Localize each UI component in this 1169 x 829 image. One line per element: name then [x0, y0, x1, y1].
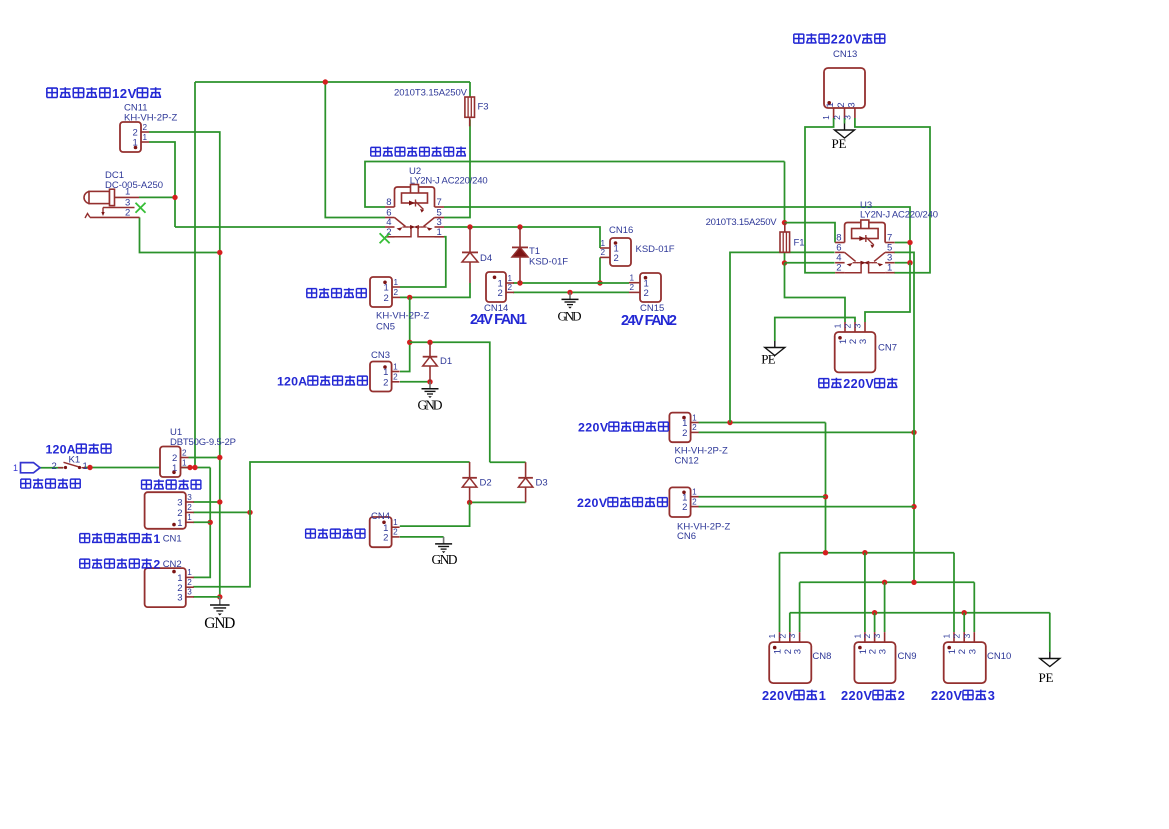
- junction L row CN9 tap: [862, 550, 867, 555]
- svg-text:2: 2: [394, 288, 399, 297]
- svg-text:2: 2: [644, 288, 649, 299]
- svg-text:KSD-01F: KSD-01F: [636, 244, 675, 255]
- svg-text:F1: F1: [794, 238, 805, 249]
- connector CN1: [145, 492, 194, 529]
- svg-text:1: 1: [819, 688, 826, 703]
- wire U2 coil loop to F1: [365, 162, 785, 208]
- wire CN6 pin2: [699, 506, 915, 508]
- svg-text:2: 2: [384, 293, 389, 304]
- svg-text:2: 2: [153, 558, 160, 572]
- svg-text:3: 3: [177, 593, 182, 604]
- junction CN16-FAN node: [597, 280, 602, 285]
- wire CN7 pin2 to PE: [775, 318, 855, 342]
- svg-text:1: 1: [437, 227, 442, 238]
- svg-text:T1: T1: [529, 246, 540, 257]
- svg-text:2: 2: [393, 528, 398, 537]
- junction F1 bottom: [782, 260, 787, 265]
- svg-text:1: 1: [821, 115, 831, 120]
- svg-text:2010T3.15A250V: 2010T3.15A250V: [706, 217, 778, 228]
- svg-text:2: 2: [692, 497, 697, 506]
- fuse F1: [780, 223, 790, 253]
- junction CN1 pin2 node: [247, 510, 252, 515]
- svg-text:CN6: CN6: [677, 531, 696, 542]
- svg-text:2: 2: [393, 373, 398, 382]
- wire DC1 pin2 to GND bus: [140, 217, 220, 252]
- pin numbers U3 row0: [836, 233, 892, 244]
- junction L row CN12 riser: [823, 550, 828, 555]
- svg-text:8: 8: [386, 197, 391, 208]
- svg-text:1: 1: [177, 518, 182, 529]
- svg-text:220V: 220V: [577, 496, 608, 510]
- svg-text:3: 3: [842, 115, 852, 120]
- svg-text:D2: D2: [480, 478, 492, 489]
- wire output PE row: [790, 612, 1050, 614]
- wire CN1 pin2 to charge bus: [193, 511, 250, 513]
- svg-text:2: 2: [692, 423, 697, 432]
- svg-text:LY2N-J AC220/240: LY2N-J AC220/240: [410, 176, 488, 187]
- wire N to CN10 pin3: [973, 582, 975, 632]
- ground GND battery: [219, 597, 221, 605]
- svg-text:3: 3: [988, 688, 995, 703]
- junction U1 pin1 node a: [187, 465, 192, 470]
- junction F1 top: [782, 220, 787, 225]
- svg-text:3: 3: [872, 633, 882, 638]
- wire CN12 pin1 to L riser: [699, 422, 826, 424]
- svg-text:CN5: CN5: [376, 322, 395, 333]
- wire charge bus x250: [193, 462, 469, 587]
- svg-text:1: 1: [182, 458, 187, 467]
- wire PE to CN10 pin2: [963, 613, 965, 632]
- svg-text:KSD-01F: KSD-01F: [529, 257, 568, 268]
- svg-text:120A: 120A: [277, 375, 307, 389]
- wire U3 pin6 L line: [730, 252, 835, 422]
- wire D3 top link: [490, 461, 526, 463]
- junction CN1 pin1 node: [208, 520, 213, 525]
- label 锂电池快充口1: [80, 534, 90, 543]
- svg-text:3: 3: [787, 633, 797, 638]
- svg-text:2: 2: [898, 688, 905, 703]
- svg-text:2: 2: [843, 323, 853, 328]
- svg-text:220V: 220V: [762, 688, 794, 703]
- wire output L row: [780, 552, 955, 554]
- connector CN5: [370, 277, 400, 307]
- svg-text:CN13: CN13: [833, 49, 857, 60]
- svg-text:CN10: CN10: [987, 651, 1011, 662]
- connector CN11: [120, 122, 149, 152]
- junction FAN GND node: [567, 290, 572, 295]
- wire coil node to D3 riser: [410, 342, 490, 462]
- wire F1 to U3 pin4: [785, 262, 835, 264]
- svg-text:12V: 12V: [112, 86, 137, 101]
- wire 12V to U2 pin4: [175, 226, 385, 228]
- connector CN4: [370, 517, 400, 547]
- svg-text:CN7: CN7: [878, 343, 897, 354]
- diode D3: [518, 462, 533, 502]
- wire CN5 pin2 to CN3 pin1: [400, 297, 410, 371]
- svg-text:3: 3: [967, 649, 978, 654]
- svg-text:2: 2: [682, 502, 687, 513]
- svg-text:2: 2: [125, 208, 130, 219]
- svg-text:CN3: CN3: [371, 350, 390, 361]
- svg-text:7: 7: [437, 197, 442, 208]
- wire N to CN8 pin3: [799, 582, 801, 632]
- junction PE row CN10 tap: [962, 610, 967, 615]
- connector CN7: [833, 322, 876, 372]
- wire CN11 pin1 down: [149, 142, 175, 227]
- wire GND bus lower: [219, 458, 221, 598]
- label 按钮启动键: [307, 289, 317, 298]
- wire U2 pin7 to U3: [444, 207, 910, 243]
- wire U3 pin5 N riser: [894, 252, 914, 582]
- wire U3 pin7 link: [895, 242, 910, 244]
- junction GND bus DC1: [217, 250, 222, 255]
- svg-text:1: 1: [393, 362, 398, 371]
- junction PE row CN9 tap: [872, 610, 877, 615]
- svg-text:3: 3: [878, 649, 889, 654]
- svg-text:1: 1: [852, 633, 862, 638]
- diode D4: [462, 227, 478, 283]
- wire PE to CN8 pin2: [789, 613, 791, 632]
- svg-text:2: 2: [836, 102, 847, 107]
- svg-text:2010T3.15A250V: 2010T3.15A250V: [394, 88, 468, 99]
- wire CN13 pin3 down: [855, 118, 930, 273]
- svg-text:1: 1: [767, 633, 777, 638]
- connector CN6: [669, 487, 698, 517]
- wire U2 pin1 to CN5 pin1: [400, 237, 446, 287]
- connector CN3: [370, 362, 400, 392]
- power PE CN13: [844, 124, 846, 131]
- svg-text:1: 1: [692, 488, 697, 497]
- svg-text:2: 2: [682, 428, 687, 439]
- label 库仑计电源: [306, 529, 316, 538]
- wire top 12V rail: [195, 81, 470, 83]
- wire F1 to U3 pin8: [785, 223, 836, 243]
- wire CN2 pin3 to GND: [193, 596, 220, 598]
- ground GND D1: [429, 382, 431, 389]
- connector CN12: [669, 413, 698, 443]
- wire CN1 pin3 to GND bus: [193, 501, 220, 503]
- connector CN15: [629, 273, 661, 302]
- svg-text:1: 1: [384, 283, 389, 294]
- svg-text:1: 1: [601, 239, 606, 248]
- junction CN1 pin3 node: [217, 499, 222, 504]
- junction D2 bottom: [467, 500, 472, 505]
- wire U2 pin3 24V: [444, 227, 600, 248]
- component U1: [160, 447, 189, 478]
- svg-text:2: 2: [52, 461, 57, 472]
- wire PE row drop: [1049, 613, 1051, 652]
- svg-text:CN4: CN4: [371, 511, 390, 522]
- power PE CN7: [774, 341, 776, 348]
- svg-text:GND: GND: [204, 615, 235, 632]
- svg-text:1: 1: [13, 463, 18, 473]
- wire output N row: [800, 581, 975, 583]
- svg-text:220V: 220V: [578, 421, 609, 435]
- wire battery+ riser: [193, 468, 210, 578]
- svg-text:2: 2: [187, 503, 192, 512]
- connector CN8: [767, 632, 811, 683]
- wire L riser x825: [825, 423, 827, 553]
- svg-text:F3: F3: [478, 102, 489, 113]
- wire CN4 pin2 to GND: [400, 536, 444, 538]
- svg-text:CN12: CN12: [675, 456, 699, 467]
- wire F1 to CN7 pin1: [785, 263, 846, 322]
- svg-text:1: 1: [143, 133, 148, 142]
- pin numbers U2 row0: [386, 197, 442, 208]
- wire F3 bottom to U2 pin5: [444, 120, 470, 218]
- net flag 逆变器正极: [13, 463, 40, 473]
- ground GND fans: [569, 292, 571, 299]
- wire CN12 pin2 to N riser: [699, 431, 915, 433]
- svg-text:1: 1: [833, 323, 843, 328]
- wire CN13 pin2 stub: [844, 118, 846, 124]
- connector CN2: [145, 568, 194, 607]
- label 交直流转换继电器: [371, 147, 381, 156]
- svg-text:2: 2: [630, 283, 635, 292]
- svg-text:1: 1: [942, 633, 952, 638]
- junction N row riser: [911, 580, 916, 585]
- connector DC1 barrel jack: [84, 191, 90, 203]
- svg-text:1: 1: [393, 518, 398, 527]
- svg-text:220V: 220V: [843, 377, 874, 391]
- svg-text:GND: GND: [418, 398, 443, 413]
- wire left bus x195: [194, 82, 196, 468]
- label 锂电池输入: [141, 480, 151, 489]
- svg-text:PE: PE: [1039, 670, 1054, 685]
- junction U3 pin3 node: [907, 260, 912, 265]
- label 逆变器220V输入: [794, 34, 804, 43]
- svg-text:1: 1: [187, 513, 192, 522]
- svg-text:KH-VH-2P-Z: KH-VH-2P-Z: [124, 113, 178, 124]
- wire CN1 pin1 stub: [193, 521, 210, 523]
- diode D2: [462, 462, 477, 502]
- svg-text:DBT50G-9.5-2P: DBT50G-9.5-2P: [170, 437, 236, 448]
- pin numbers U2 row1: [386, 208, 442, 219]
- wire N to CN9 pin3: [884, 582, 886, 632]
- svg-text:D3: D3: [536, 478, 548, 489]
- wire U3 pin3 link: [895, 262, 910, 264]
- relay contact K1: [58, 462, 86, 469]
- svg-text:CN2: CN2: [163, 559, 182, 570]
- svg-text:3: 3: [846, 102, 857, 107]
- svg-text:2: 2: [143, 123, 148, 132]
- junction GND bus CN2 pin3: [217, 594, 222, 599]
- svg-text:DC-005-A250: DC-005-A250: [105, 180, 163, 191]
- svg-text:1: 1: [887, 263, 892, 274]
- svg-text:3: 3: [187, 588, 192, 597]
- junction CN12 pin1 node: [727, 420, 732, 425]
- wire U2 pin6 riser: [325, 82, 385, 218]
- wire DC1 pin1: [139, 196, 175, 198]
- svg-text:220V: 220V: [931, 688, 963, 703]
- junction CN5 pin2 node: [407, 295, 412, 300]
- pin numbers U3 row1: [836, 242, 892, 253]
- wire CN13 pin1 down: [805, 118, 835, 273]
- svg-text:1: 1: [692, 413, 697, 422]
- connector CN16: [600, 238, 631, 266]
- svg-text:24V FAN1: 24V FAN1: [470, 312, 527, 328]
- diode D1: [423, 342, 438, 382]
- svg-text:3: 3: [177, 498, 182, 509]
- relay U3: [835, 242, 845, 244]
- svg-text:2: 2: [836, 263, 841, 274]
- wire x910 mid: [909, 243, 911, 263]
- svg-text:2: 2: [383, 533, 388, 544]
- junction T1 bottom: [517, 280, 522, 285]
- svg-text:3: 3: [853, 323, 863, 328]
- no-connect DC1 pin3: [136, 203, 146, 213]
- wire L to CN8 pin1: [779, 553, 781, 632]
- junction U3 pin7 node: [907, 240, 912, 245]
- connector CN13: [821, 68, 865, 120]
- svg-text:1: 1: [630, 274, 635, 283]
- wire L to CN9 pin1: [864, 553, 866, 632]
- svg-text:2: 2: [187, 578, 192, 587]
- svg-text:PE: PE: [832, 136, 847, 151]
- junction D1 bottom: [427, 379, 432, 384]
- connector CN10: [942, 632, 986, 683]
- pin numbers U3 row2: [836, 253, 892, 264]
- svg-text:2: 2: [614, 253, 619, 264]
- junction T1 top: [517, 224, 522, 229]
- wire F1 coil link: [784, 162, 786, 223]
- svg-text:1: 1: [508, 274, 513, 283]
- svg-text:2: 2: [383, 377, 388, 388]
- pin numbers U2 row2: [386, 217, 442, 228]
- wire D4 bottom to CN5 pin2: [400, 283, 470, 297]
- wire CN6 pin1: [699, 496, 826, 498]
- svg-text:120A: 120A: [46, 443, 76, 457]
- relay U2: [385, 206, 395, 208]
- junction K1 node: [87, 465, 92, 470]
- junction coil node: [407, 340, 412, 345]
- svg-text:CN8: CN8: [812, 651, 831, 662]
- svg-text:2: 2: [777, 633, 787, 638]
- junction top rail: [323, 79, 328, 84]
- svg-text:220V: 220V: [831, 33, 862, 47]
- svg-text:D4: D4: [480, 253, 492, 264]
- svg-text:CN9: CN9: [898, 651, 917, 662]
- thermal diode T1: [512, 227, 528, 283]
- svg-text:GND: GND: [558, 309, 582, 324]
- junction CN6 pin2 node: [911, 504, 916, 509]
- label 锂电池快充口2: [80, 559, 90, 568]
- wire CN3 pin2 to D1 bottom: [400, 381, 430, 383]
- wire K1 left: [40, 467, 63, 469]
- wire FAN- rail: [513, 291, 629, 293]
- svg-text:1: 1: [394, 278, 399, 287]
- svg-text:220V: 220V: [841, 688, 873, 703]
- junction U1 pin1 node b: [192, 465, 197, 470]
- wire PE to CN9 pin2: [874, 613, 876, 632]
- svg-text:1: 1: [153, 532, 160, 546]
- junction D1 top: [427, 340, 432, 345]
- wire FAN+ rail: [513, 282, 629, 284]
- junction U1 pin2 node: [217, 455, 222, 460]
- junction CN12 pin2 node: [911, 430, 916, 435]
- svg-text:D1: D1: [440, 356, 452, 367]
- connector CN9: [852, 632, 895, 683]
- label 内置充电器12V输入: [47, 88, 57, 97]
- svg-text:24V FAN2: 24V FAN2: [621, 313, 677, 329]
- svg-text:3: 3: [187, 493, 192, 502]
- wire N to CN7 pin3: [865, 263, 910, 322]
- svg-text:1: 1: [83, 461, 88, 472]
- wire CN16 pin2 down: [599, 257, 601, 283]
- junction CN6 pin1 node: [823, 494, 828, 499]
- power PE outputs: [1049, 652, 1051, 659]
- pin numbers U3 row3: [836, 263, 892, 274]
- svg-text:2: 2: [952, 633, 962, 638]
- wire CN11 pin2 to GND bus: [149, 132, 220, 458]
- svg-text:2: 2: [832, 115, 842, 120]
- svg-text:CN1: CN1: [163, 534, 182, 545]
- svg-text:KH-VH-2P-Z: KH-VH-2P-Z: [376, 311, 430, 322]
- svg-text:2: 2: [498, 288, 503, 299]
- svg-text:CN16: CN16: [609, 225, 633, 236]
- svg-text:2: 2: [508, 283, 513, 292]
- wire D2 to CN4 pin1: [400, 502, 470, 526]
- svg-text:2: 2: [182, 448, 187, 457]
- svg-text:LY2N-J AC220/240: LY2N-J AC220/240: [860, 210, 938, 221]
- label 逆变器正极: [21, 479, 31, 488]
- svg-text:1: 1: [187, 568, 192, 577]
- svg-text:3: 3: [858, 339, 869, 344]
- svg-text:2: 2: [862, 633, 872, 638]
- svg-text:PE: PE: [761, 352, 776, 367]
- wire K1 to U1 pin1: [84, 467, 210, 469]
- junction N row CN9 tap: [882, 580, 887, 585]
- pin numbers U2 row3: [386, 227, 442, 238]
- svg-text:3: 3: [793, 649, 804, 654]
- svg-text:3: 3: [962, 633, 972, 638]
- svg-text:2: 2: [601, 248, 606, 257]
- junction DC1 pin1 node: [172, 195, 177, 200]
- wire L to CN10 pin1: [953, 553, 955, 632]
- wire F3 top: [469, 82, 471, 97]
- wire F1 bottom lead: [784, 252, 786, 263]
- ground GND CN4: [443, 537, 445, 544]
- wire D2 D3 bottom: [470, 501, 526, 503]
- connector CN14: [486, 272, 514, 302]
- fuse F3: [465, 97, 475, 126]
- no-connect U2 pin2: [380, 233, 390, 243]
- label 市电220V输入: [819, 379, 829, 388]
- junction D4 top: [467, 224, 472, 229]
- svg-text:GND: GND: [432, 552, 458, 567]
- wire U1 pin2 to GND bus: [189, 457, 220, 459]
